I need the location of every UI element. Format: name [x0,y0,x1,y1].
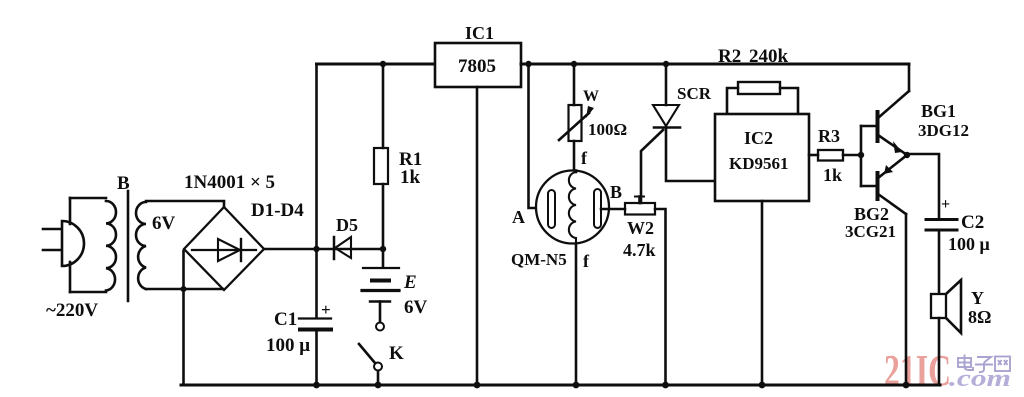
node ground BG2 [903,382,910,389]
wire W bottom lead [573,141,576,171]
node emitters junction [904,152,910,158]
node R1 / top rail [380,61,386,67]
svg-text:3DG12: 3DG12 [918,121,969,140]
node top rail / SCR anode [663,61,669,67]
svg-text:SCR: SCR [677,84,712,103]
svg-text:+: + [941,196,950,213]
wire secondary top [146,201,224,207]
wire IC2 output to R3 [809,154,818,157]
svg-text:.com: .com [949,366,1011,392]
svg-text:BG2: BG2 [854,204,889,224]
svg-text:IC2: IC2 [744,128,773,148]
svg-text:R3: R3 [818,126,840,146]
potentiometer W2 [625,197,655,215]
resistor R2 [727,82,798,114]
wire IC2 ground pin [761,201,764,385]
transformer core [127,191,130,301]
wire secondary bottom [146,288,223,291]
svg-text:K: K [389,343,404,364]
resistor R1 [374,148,388,184]
svg-text:1N4001 × 5: 1N4001 × 5 [184,172,275,193]
svg-text:A: A [512,207,525,227]
svg-text:4.7k: 4.7k [623,240,656,260]
svg-text:f: f [581,148,588,168]
svg-text:B: B [117,173,130,194]
wire SCR cathode to IC2 [666,128,715,182]
wire bridge output to D5 and battery junction [264,248,383,251]
capacitor C1 [299,319,331,330]
svg-text:BG1: BG1 [921,101,956,121]
svg-text:6V: 6V [404,297,428,318]
transformer secondary winding [136,202,146,289]
node ground IC2 [759,382,766,389]
svg-text:~220V: ~220V [46,300,98,321]
svg-text:C2: C2 [961,212,984,233]
wire sensor B lead [601,208,625,211]
wire W top lead [573,64,576,105]
node ground C1 [313,382,320,389]
svg-text:D1-D4: D1-D4 [251,200,304,221]
wire +V vertical (bridge out up to top rail, down to C1) [315,64,318,385]
node top rail / sensor-A line [525,61,531,67]
wire bridge left corner down to ground rail [182,251,185,385]
resistor R3 [818,150,843,161]
battery E [362,249,399,331]
wire primary loop [70,198,106,292]
watermark dianziwang glyphs [958,355,1010,373]
wire W2 right lead to ground rail [655,209,666,385]
svg-text:D5: D5 [336,215,358,235]
svg-text:KD9561: KD9561 [729,154,789,173]
svg-text:R2: R2 [718,46,741,67]
transistor BG1 [878,64,910,155]
potentiometer W [559,105,594,141]
svg-text:+: + [321,300,331,319]
svg-text:Y: Y [971,288,984,308]
transistor BG2 [878,155,908,385]
svg-text:IC1: IC1 [465,23,494,43]
svg-text:240k: 240k [749,46,789,67]
diode D5 [334,237,351,259]
wire R1 bottom lead [382,184,385,249]
wire sensor heater bottom to ground rail [575,244,578,385]
node ground sensor [573,382,580,389]
speaker Y [931,280,961,333]
switch K [359,344,382,385]
svg-text:100Ω: 100Ω [588,120,627,139]
node bridge output / C1 vertical [313,246,319,252]
capacitor C2 [926,220,957,231]
wire R3 to base node [843,154,861,157]
svg-text:100 μ: 100 μ [266,335,310,356]
svg-text:1k: 1k [400,167,421,188]
wire C2 to speaker [938,231,941,294]
svg-text:B: B [610,182,622,202]
wire output node to C2 [907,154,939,219]
IC1 box [435,43,521,87]
wire R1 top lead [382,64,385,148]
SCR [641,105,680,203]
wire speaker to ground rail [938,318,941,385]
gas sensor QM-N5 [536,171,609,245]
svg-text:QM-N5: QM-N5 [511,250,567,269]
wire SCR anode [665,64,668,105]
svg-text:C1: C1 [274,309,297,330]
wire ground rail [181,384,940,387]
wire top rail left (to IC1 input) [317,63,437,66]
node top rail / W line [571,61,577,67]
node ground W2 [662,382,669,389]
wire base tree [861,126,876,186]
svg-text:E: E [403,272,417,293]
svg-text:6V: 6V [152,213,176,234]
node junction secondary-bottom / left vertical [181,286,187,292]
IC2 box [715,114,809,201]
svg-text:W: W [583,88,599,105]
svg-text:100 μ: 100 μ [948,234,990,254]
svg-text:W2: W2 [627,218,654,238]
node ground K [375,382,382,389]
node base junction [858,152,864,158]
svg-text:21IC: 21IC [884,346,951,395]
wire IC1 ground pin to rail [476,87,479,385]
svg-text:8Ω: 8Ω [968,307,991,327]
wire top rail right [521,63,909,66]
node D5 / R1 / battery junction [380,246,386,252]
svg-text:7805: 7805 [458,56,496,77]
transformer B primary winding [106,201,116,291]
svg-text:f: f [583,251,590,271]
bridge rectifier D1-D4 [184,207,264,290]
wire sensor A line [529,64,549,208]
plug P1 [43,221,84,266]
svg-text:1k: 1k [823,165,842,185]
svg-text:3CG21: 3CG21 [845,222,896,241]
node ground IC1 [474,382,481,389]
